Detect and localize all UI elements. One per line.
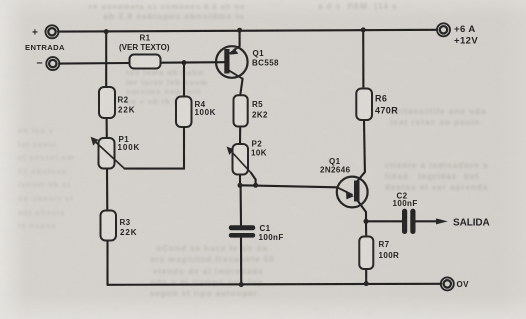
terminal +6A +12V xyxy=(437,23,450,36)
svg-text:BC558: BC558 xyxy=(252,58,279,67)
svg-text:Q1: Q1 xyxy=(253,49,265,58)
svg-text:2N2646: 2N2646 xyxy=(320,166,351,175)
node minus wire R4 junction xyxy=(182,60,187,65)
svg-text:P2: P2 xyxy=(252,140,263,149)
wire output node to C2 xyxy=(366,220,402,222)
resistor R6 xyxy=(356,89,372,121)
wire UJT base1 to output node xyxy=(358,201,367,222)
node C1 bottom rail junction xyxy=(239,282,244,287)
wire node to C1 top xyxy=(240,185,242,225)
potentiometer P1 xyxy=(91,137,125,169)
resistor R1 xyxy=(130,55,161,69)
svg-text:100nF: 100nF xyxy=(259,233,284,242)
wire minus input to R1 xyxy=(59,62,129,65)
svg-text:470R: 470R xyxy=(375,106,398,116)
wire R6 branch from top rail xyxy=(362,30,364,89)
wire R1 to Q1 base xyxy=(161,61,225,64)
svg-text:R7: R7 xyxy=(379,240,390,249)
wire R6 to UJT base2 xyxy=(357,120,365,182)
svg-text:+12V: +12V xyxy=(454,36,478,47)
salida arrow xyxy=(436,218,448,224)
resistor R4 xyxy=(176,97,192,128)
svg-text:100K: 100K xyxy=(195,108,217,117)
node top rail R6 junction xyxy=(361,27,366,32)
wire R7 to bottom rail xyxy=(365,269,367,284)
resistor R7 xyxy=(359,237,373,270)
wire Q1 emitter to top rail xyxy=(239,30,241,46)
capacitor C2 xyxy=(402,209,416,234)
terminal - entrada xyxy=(46,57,59,70)
wire P1 to R3 xyxy=(106,169,108,211)
wire bottom rail xyxy=(108,284,442,285)
wire R2 branch from top rail xyxy=(105,32,107,87)
wire Q1 collector to R5 xyxy=(240,79,242,96)
wire P2 to emitter node xyxy=(239,175,241,186)
wire C1 bottom to bottom rail xyxy=(240,237,242,284)
potentiometer P2 xyxy=(227,144,251,175)
terminal + entrada xyxy=(46,25,59,38)
node R7 bottom rail junction xyxy=(364,281,369,286)
wire output node to R7 xyxy=(365,221,367,236)
wire R3 to bottom rail xyxy=(106,241,108,285)
svg-text:R3: R3 xyxy=(120,218,131,227)
resistor R2 xyxy=(99,87,115,118)
svg-text:–: – xyxy=(37,57,43,69)
svg-text:+6 A: +6 A xyxy=(454,24,476,35)
node UJT output junction xyxy=(364,219,369,224)
svg-text:C1: C1 xyxy=(260,224,271,233)
svg-text:R5: R5 xyxy=(252,100,263,109)
svg-text:R1: R1 xyxy=(140,34,151,43)
transistor Q1 2N2646 xyxy=(337,177,368,208)
capacitor C1 xyxy=(229,225,255,237)
terminal 0V xyxy=(441,277,454,290)
resistor R3 xyxy=(101,211,117,241)
wire top positive rail xyxy=(58,30,437,32)
svg-text:R2: R2 xyxy=(118,96,129,105)
node top rail Q1 emitter junction xyxy=(237,28,242,33)
svg-text:SALIDA: SALIDA xyxy=(453,218,490,229)
svg-text:2K2: 2K2 xyxy=(252,111,268,120)
svg-text:+: + xyxy=(32,28,38,39)
wire P2 wiper drop xyxy=(251,173,256,186)
wire P1 wiper to R4 bottom xyxy=(125,127,185,169)
wire emitter node to UJT emitter xyxy=(240,185,337,187)
svg-text:22K: 22K xyxy=(120,228,137,237)
svg-text:R6: R6 xyxy=(375,94,387,104)
resistor R5 xyxy=(234,95,248,126)
svg-text:100R: 100R xyxy=(379,251,400,260)
svg-text:(VER TEXTO): (VER TEXTO) xyxy=(119,43,170,52)
svg-text:ENTRADA: ENTRADA xyxy=(25,43,65,52)
svg-text:22K: 22K xyxy=(118,106,135,115)
svg-text:100nF: 100nF xyxy=(393,199,418,208)
svg-text:10K: 10K xyxy=(251,149,267,158)
wire C2 to salida arrow xyxy=(416,220,438,222)
node top rail R2 junction xyxy=(104,29,109,34)
wire R4 top to minus node xyxy=(183,63,185,97)
transistor Q1 BC558 xyxy=(216,46,248,79)
svg-text:100K: 100K xyxy=(118,143,141,152)
node P2 bottom junction xyxy=(238,183,243,188)
node P2 wiper junction xyxy=(253,183,258,188)
wire R2 to P1 xyxy=(106,118,108,138)
wire R5 to P2 xyxy=(239,127,241,145)
svg-text:OV: OV xyxy=(457,280,470,289)
